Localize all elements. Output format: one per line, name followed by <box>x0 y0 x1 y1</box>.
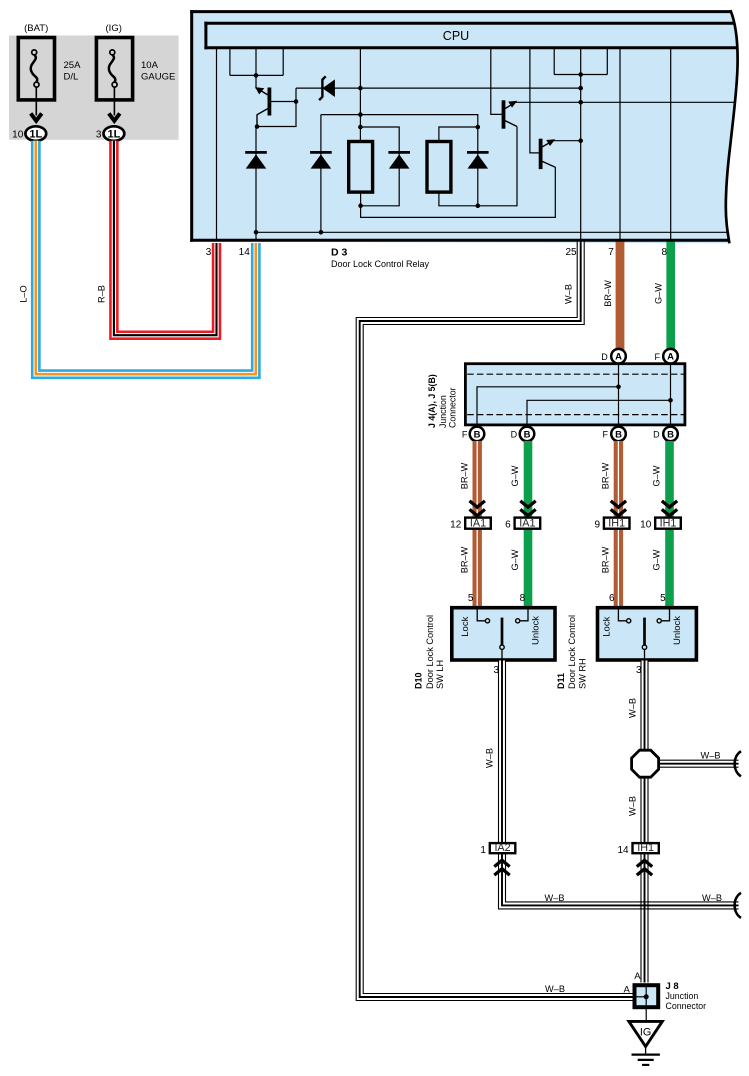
svg-text:Door Lock Control: Door Lock Control <box>425 615 435 689</box>
wire G-W column x528 <box>524 441 533 607</box>
connector pin 10 1L <box>25 126 46 141</box>
wire Q3 emitter to node <box>553 140 581 142</box>
svg-text:3: 3 <box>206 247 212 258</box>
svg-text:W–B: W–B <box>628 796 638 816</box>
svg-text:R–B: R–B <box>97 285 107 303</box>
svg-text:3: 3 <box>96 130 102 141</box>
wire pin 3 vertical <box>216 49 218 241</box>
svg-text:10: 10 <box>12 130 24 141</box>
svg-text:D: D <box>511 430 518 440</box>
svg-text:IA1: IA1 <box>470 518 486 530</box>
svg-text:IH1: IH1 <box>608 518 625 530</box>
fuse 10A GAUGE element <box>110 50 115 55</box>
svg-text:F: F <box>654 352 660 362</box>
svg-text:B: B <box>474 429 481 440</box>
relay D3 body fill <box>190 10 737 243</box>
svg-text:6: 6 <box>609 593 615 604</box>
wire Q2 emitter rail <box>515 101 735 103</box>
transistor Q1 (PNP) <box>267 88 271 116</box>
resistor R2 <box>427 142 451 193</box>
junction connector J8 box <box>635 985 659 1007</box>
wire diode D1 to pin 14 <box>256 127 257 241</box>
connector IA2 pin 1 <box>490 843 516 853</box>
svg-text:B: B <box>667 429 674 440</box>
svg-text:Lock: Lock <box>460 616 471 636</box>
connector pin 3 1L <box>104 126 125 141</box>
connector IH1 pin 14 <box>633 843 659 853</box>
diode D1 <box>245 151 267 154</box>
wire W-B D11 to octagon to J8 <box>640 661 648 983</box>
wire Q1 base to node <box>269 101 296 103</box>
wire emitter feed Q1 <box>255 75 257 88</box>
page break symbol lower right <box>735 893 741 918</box>
wire Q1 collector net <box>257 88 296 126</box>
connector IA1 pin 6 <box>515 518 541 529</box>
wire BR-W from relay pin 7 <box>616 240 625 350</box>
svg-text:Junction: Junction <box>438 395 448 428</box>
arrow into IA2 <box>494 860 509 875</box>
transistor Q2 (NPN) <box>491 49 504 114</box>
svg-text:6: 6 <box>505 520 511 531</box>
svg-text:D11: D11 <box>556 673 566 689</box>
svg-text:5: 5 <box>468 593 474 604</box>
wire diode D4 column <box>477 127 479 207</box>
wire zener rail <box>296 87 581 89</box>
svg-text:8: 8 <box>520 593 526 604</box>
svg-text:D: D <box>601 352 608 362</box>
wire L-O from fuse 25A to relay pin 14 <box>36 141 256 374</box>
arrow into connector x618.4 <box>611 501 626 516</box>
wire pin 25 vertical <box>580 49 582 241</box>
svg-text:D10: D10 <box>414 672 424 689</box>
svg-text:1L: 1L <box>107 129 120 141</box>
fuse 10A GAUGE box <box>96 38 132 100</box>
svg-text:B: B <box>615 429 622 440</box>
svg-text:A: A <box>667 352 674 363</box>
svg-text:W–B: W–B <box>545 893 565 903</box>
svg-text:G–W: G–W <box>510 465 520 486</box>
svg-text:10: 10 <box>640 520 652 531</box>
svg-text:W–B: W–B <box>545 984 565 994</box>
svg-text:BR–W: BR–W <box>601 462 611 489</box>
wire R-B from fuse 10A to relay pin 3 <box>114 141 217 335</box>
svg-text:F: F <box>462 430 468 440</box>
arrow into connector 1L (BAT) <box>35 88 37 116</box>
junction connector dashed rows <box>467 373 683 375</box>
connector IH1 pin 9 <box>604 518 630 529</box>
svg-text:D 3: D 3 <box>331 246 348 258</box>
fuse 25A D/L element <box>32 50 37 55</box>
svg-text:1: 1 <box>480 845 486 856</box>
svg-text:B: B <box>524 429 531 440</box>
svg-text:SW RH: SW RH <box>577 658 587 689</box>
svg-text:(IG): (IG) <box>106 23 122 34</box>
svg-text:9: 9 <box>594 520 600 531</box>
svg-text:Unlock: Unlock <box>531 616 542 645</box>
diode D4 <box>467 151 489 154</box>
svg-text:25A: 25A <box>64 60 82 71</box>
svg-text:W–B: W–B <box>563 284 573 304</box>
wire pin 7 vertical <box>619 49 621 241</box>
svg-text:5: 5 <box>660 593 666 604</box>
svg-text:Unlock: Unlock <box>672 616 683 645</box>
svg-text:IH1: IH1 <box>637 842 654 854</box>
svg-text:7: 7 <box>608 247 614 258</box>
page break symbol right branch <box>735 751 741 776</box>
svg-text:BR–W: BR–W <box>459 462 469 489</box>
svg-text:CPU: CPU <box>443 29 469 43</box>
svg-text:IA2: IA2 <box>494 842 510 854</box>
svg-text:J 4(A), J 5(B): J 4(A), J 5(B) <box>427 374 437 428</box>
diode D2 <box>310 151 332 154</box>
zener diode ZD1 <box>322 79 335 97</box>
svg-text:10A: 10A <box>141 60 159 71</box>
wire W-B D10 to IA2 and right break <box>502 661 739 906</box>
wire J4 internal G-W <box>670 363 672 427</box>
door lock switch D11 <box>598 608 697 660</box>
arrow into connector x477.2 <box>470 501 485 516</box>
CPU bus bar <box>204 22 735 25</box>
door lock switch D10 <box>452 608 555 660</box>
wire G-W column x669.5 <box>665 441 674 607</box>
svg-text:IG: IG <box>640 1026 651 1038</box>
svg-text:Connector: Connector <box>666 1001 707 1011</box>
svg-text:25: 25 <box>565 247 577 258</box>
svg-text:W–B: W–B <box>701 750 721 760</box>
wire R2/D4 bottom to Q2 collector <box>439 127 517 206</box>
wire top net A <box>321 115 478 127</box>
wire bottom rail <box>256 231 728 233</box>
relay D3 border <box>190 10 731 13</box>
ground IG triangle <box>629 1021 662 1046</box>
svg-text:IA1: IA1 <box>519 518 535 530</box>
node right coil loop <box>554 49 607 75</box>
arrow into connector x669.5 <box>662 501 677 516</box>
wire BR-W column x477.2 <box>473 441 482 607</box>
junction connector J4/J5 box <box>465 364 685 425</box>
wire net B to diode D3 <box>360 127 399 206</box>
svg-text:Door Lock Control Relay: Door Lock Control Relay <box>331 259 430 269</box>
svg-text:Lock: Lock <box>602 616 613 636</box>
svg-text:A: A <box>615 352 622 363</box>
wire CPU feed to R1 column <box>359 49 361 141</box>
svg-text:BR–W: BR–W <box>601 546 611 573</box>
svg-text:(BAT): (BAT) <box>24 23 48 34</box>
svg-text:Connector: Connector <box>447 387 457 428</box>
arrow into IH1 lower <box>637 860 652 875</box>
transistor Q3 (NPN) <box>530 49 541 153</box>
svg-text:D/L: D/L <box>64 72 79 83</box>
svg-text:12: 12 <box>450 520 462 531</box>
svg-text:G–W: G–W <box>652 549 662 570</box>
wire J4 internal BR-W <box>618 363 620 427</box>
svg-text:14: 14 <box>239 247 251 258</box>
svg-text:Junction: Junction <box>666 991 699 1001</box>
wire diode D2 column <box>320 115 322 233</box>
svg-text:IH1: IH1 <box>660 518 677 530</box>
svg-text:D: D <box>653 430 660 440</box>
connector IH1 pin 10 <box>655 518 681 529</box>
svg-text:W–B: W–B <box>484 748 494 768</box>
diode D3 <box>388 151 410 154</box>
wire W-B from relay pin 25 to J8 <box>360 240 634 997</box>
svg-text:G–W: G–W <box>510 549 520 570</box>
svg-text:F: F <box>602 430 608 440</box>
wire R1 bottom to Q3 collector <box>361 167 556 217</box>
fuse block gray panel <box>9 36 179 140</box>
wire J8 internal <box>645 984 647 1022</box>
svg-text:A: A <box>634 971 641 982</box>
svg-text:L–O: L–O <box>19 285 29 302</box>
svg-text:BR–W: BR–W <box>459 546 469 573</box>
wire crossing patch <box>639 901 649 903</box>
wire BR-W column x618.4 <box>614 441 623 607</box>
svg-text:G–W: G–W <box>652 465 662 486</box>
connector IA1 pin 12 <box>465 518 491 529</box>
svg-text:W–B: W–B <box>702 893 722 903</box>
svg-text:A: A <box>623 985 630 996</box>
svg-text:SW LH: SW LH <box>435 660 445 689</box>
wire G-W from relay pin 8 <box>666 240 675 350</box>
ground symbol <box>645 1047 647 1054</box>
svg-text:GAUGE: GAUGE <box>141 72 175 83</box>
wire W-B octagon right branch <box>656 760 739 768</box>
splice node octagon <box>632 750 659 777</box>
svg-text:Door Lock Control: Door Lock Control <box>567 615 577 689</box>
arrow into connector 1L (IG) <box>113 88 115 116</box>
fuse 25A D/L box <box>18 38 54 100</box>
arrow into connector x528 <box>520 501 535 516</box>
resistor R1 <box>349 142 373 193</box>
svg-text:14: 14 <box>617 845 629 856</box>
svg-text:W–B: W–B <box>628 698 638 718</box>
node left coil loop <box>230 49 283 75</box>
wire pin 8 vertical <box>670 49 672 241</box>
wire net B2 to resistor R2 <box>439 127 478 141</box>
svg-text:1L: 1L <box>29 129 42 141</box>
svg-text:BR–W: BR–W <box>603 280 613 307</box>
svg-text:G–W: G–W <box>653 283 663 304</box>
